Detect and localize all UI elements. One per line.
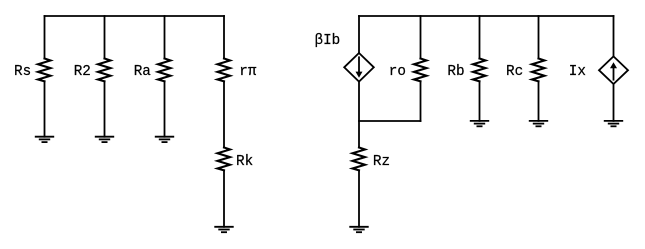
svg-text:βIb: βIb: [315, 33, 341, 49]
wire: rpi branch top: [223, 16, 225, 59]
independent current source Ix (diamond): [599, 56, 628, 84]
wire: Rc to ground: [538, 81, 540, 121]
arrow (up) inside Ix: [613, 67, 615, 79]
ground (Rz): [349, 227, 368, 232]
svg-text:R2: R2: [74, 64, 91, 80]
svg-text:Rs: Rs: [14, 64, 31, 80]
wire: Rs to ground: [44, 81, 46, 136]
wire: Ix to ground: [613, 84, 615, 121]
svg-text:Ix: Ix: [569, 64, 586, 80]
wire: left top bus: [45, 15, 225, 17]
svg-text:Rk: Rk: [236, 154, 253, 170]
wire: ro to node: [420, 81, 422, 121]
wire: ro branch top: [420, 16, 422, 59]
svg-text:Rb: Rb: [447, 64, 464, 80]
arrow (down) inside bIb: [358, 57, 360, 72]
resistor ro: [414, 59, 427, 82]
wire: R2 branch top: [104, 16, 106, 59]
wire: source branch top: [358, 16, 360, 53]
ground (Rk): [214, 227, 233, 232]
ground (R2): [95, 137, 114, 142]
svg-text:Rz: Rz: [373, 154, 390, 170]
svg-text:rπ: rπ: [239, 64, 257, 80]
wire: Ra to ground: [164, 81, 166, 136]
resistor Ra: [158, 59, 171, 82]
resistor Rc: [532, 59, 545, 82]
wire: R2 to ground: [104, 81, 106, 136]
svg-text:Ra: Ra: [134, 64, 152, 80]
wire: Rb to ground: [479, 81, 481, 121]
wire: right top bus: [359, 15, 614, 17]
wire: Rz to ground: [358, 170, 360, 227]
ground (Rb): [470, 121, 489, 126]
resistor Rz: [353, 148, 366, 171]
ground (Rc): [529, 121, 548, 126]
resistor Rk: [218, 148, 231, 171]
ground (Rs): [35, 137, 54, 142]
wire: Ra branch top: [164, 16, 166, 59]
wire: Rk to ground: [223, 170, 225, 227]
wire: bIb to node: [358, 82, 360, 148]
wire: Rs branch top: [44, 16, 46, 59]
ground (Ix): [604, 121, 623, 126]
svg-text:Rc: Rc: [506, 64, 523, 80]
node wire to ro: [359, 120, 421, 122]
wire: Rc branch top: [538, 16, 540, 59]
resistor R2: [98, 59, 111, 82]
wire: Ix branch top: [613, 16, 615, 56]
dependent current source bIb (diamond): [344, 53, 374, 82]
resistor Rb: [473, 59, 486, 82]
svg-text:ro: ro: [389, 64, 406, 80]
resistor Rs: [38, 59, 51, 82]
wire: rpi to Rk: [223, 81, 225, 147]
wire: Rb branch top: [479, 16, 481, 59]
ground (Ra): [155, 137, 174, 142]
resistor rpi: [218, 59, 231, 82]
